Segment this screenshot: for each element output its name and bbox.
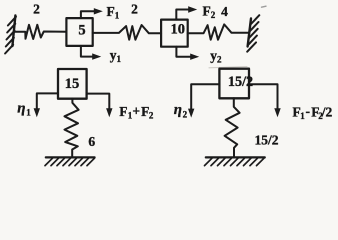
svg-text:5: 5 — [78, 22, 85, 38]
svg-text:2: 2 — [183, 109, 188, 119]
svg-text:/2: /2 — [321, 105, 333, 120]
svg-text:F: F — [119, 104, 127, 119]
svg-text:15/2: 15/2 — [228, 74, 253, 90]
svg-text:η: η — [174, 102, 182, 118]
svg-text:η: η — [17, 101, 25, 117]
svg-text:1: 1 — [26, 107, 31, 117]
svg-text:+: + — [132, 104, 140, 119]
svg-text:10: 10 — [170, 22, 185, 38]
svg-text:2: 2 — [149, 111, 154, 121]
svg-text:15/2: 15/2 — [255, 133, 279, 148]
svg-text:2: 2 — [131, 1, 138, 16]
svg-text:-: - — [306, 104, 311, 119]
svg-text:2: 2 — [33, 2, 40, 17]
svg-text:6: 6 — [88, 134, 95, 149]
svg-text:15: 15 — [65, 76, 80, 92]
svg-text:4: 4 — [221, 4, 228, 19]
